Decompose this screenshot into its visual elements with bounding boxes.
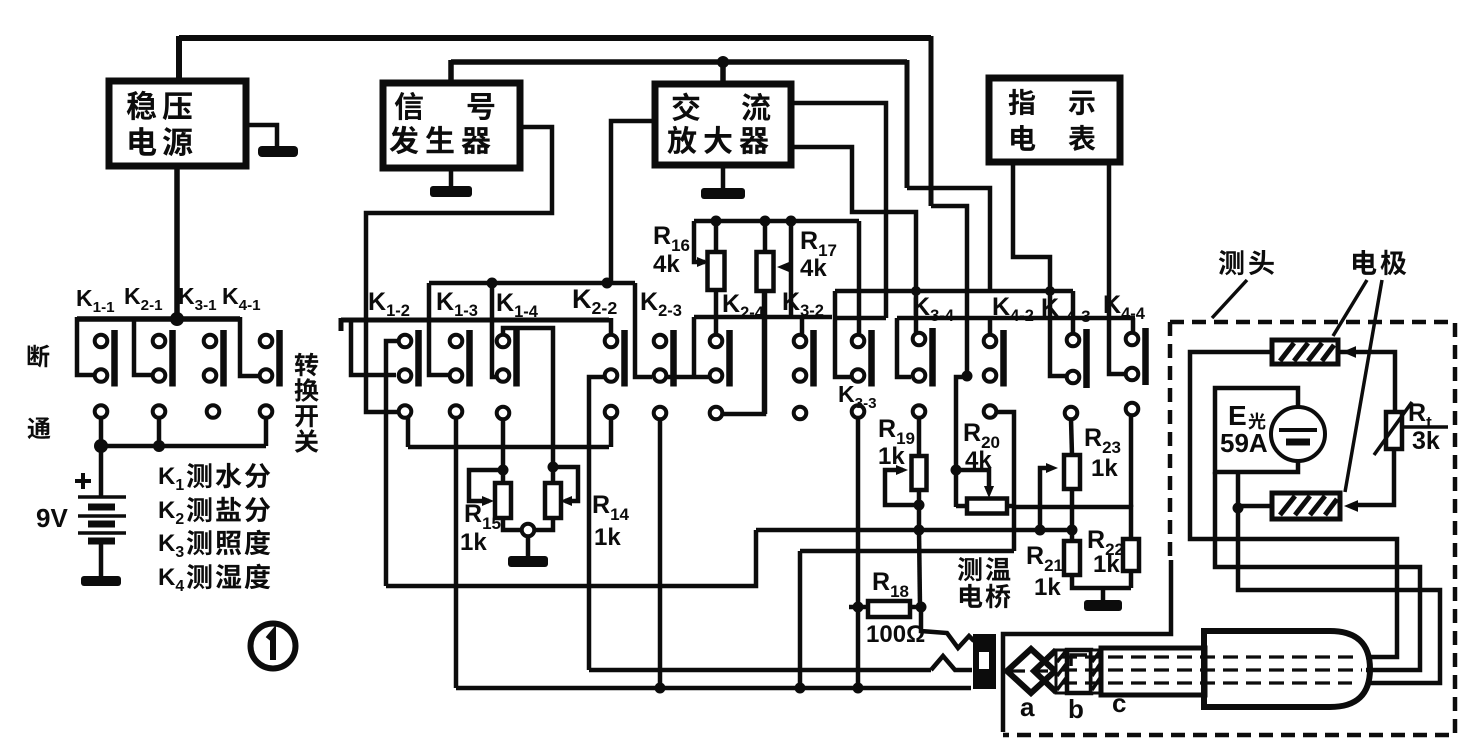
wire K4-1 pole stem bbox=[264, 418, 269, 446]
resistor R22 1k bbox=[1123, 539, 1139, 571]
plug insulator band 1 bbox=[1056, 650, 1067, 693]
wire K4-4 pole to R22 top bbox=[1129, 415, 1134, 507]
switch K4-1 bbox=[260, 330, 280, 418]
label + battery polarity bbox=[75, 479, 91, 483]
label 转换开关 (selector switch) bbox=[295, 353, 319, 453]
probe dashed enclosure 测头 bbox=[1003, 322, 1455, 735]
node bus2/meter bbox=[1045, 286, 1055, 296]
wire W2 drop to AC amplifier bbox=[720, 62, 726, 86]
svg-text:c: c bbox=[1112, 688, 1126, 718]
switch K1-1 bbox=[95, 330, 115, 418]
node R17 wiper tie bbox=[786, 216, 797, 227]
wire R17 top lead bbox=[763, 221, 768, 252]
arrow R17 wiper bbox=[777, 262, 789, 272]
slash adjustable Rt bbox=[1374, 402, 1412, 455]
node R18 left bbox=[853, 602, 864, 613]
wire bus drop bbox=[692, 317, 697, 377]
node junction W2/amplifier bbox=[717, 56, 729, 68]
wire loop left drop to K1-3 bottom bbox=[429, 283, 449, 375]
switch K1-2 bbox=[399, 330, 419, 418]
wire W2 right drop bbox=[905, 60, 910, 188]
ground below signal generator bbox=[449, 168, 454, 186]
wire bracket to K2-1 bottom bbox=[134, 317, 152, 375]
dashed conductor lines inside probe bbox=[1010, 657, 1362, 683]
node R23 wiper/H1 bbox=[1035, 525, 1046, 536]
node R15/R14 bottom contact bbox=[522, 524, 535, 537]
label 电极 (electrodes) bbox=[1353, 250, 1406, 275]
wire K1-3 pole down to BB2 bbox=[454, 418, 459, 688]
text 表 bbox=[1069, 125, 1096, 151]
wire bracket to K1-2 bottom bbox=[351, 318, 396, 375]
plug barrel bbox=[1101, 648, 1205, 695]
wire R16/R17 top bus bbox=[694, 219, 859, 224]
resistor R20 4k body horizontal bbox=[967, 499, 1007, 514]
wire amplifier out-bottom to K3-4 top contact bbox=[791, 147, 916, 336]
battery 9V bbox=[78, 446, 126, 541]
wire second bus W2 bbox=[451, 59, 907, 65]
wire bus3 to K4-4 top stem bbox=[1131, 318, 1136, 334]
wire R18 left lead bbox=[849, 605, 868, 610]
ground below bridge bbox=[1101, 588, 1106, 600]
switch K2-4 bbox=[710, 330, 730, 419]
wire K3-3 pole down through R18 to BB2 bbox=[856, 418, 861, 688]
resistor R14 1k body bbox=[545, 483, 561, 518]
plug chevron tip bbox=[1007, 649, 1055, 693]
wire pole bus bbox=[100, 444, 266, 449]
wire top bus W1 bbox=[179, 35, 931, 41]
wire R18 to jack tip with squiggle bbox=[921, 607, 974, 648]
wire loop conductor b bbox=[1215, 472, 1420, 670]
switch K3-4 bbox=[913, 328, 933, 418]
switch K1-3 bbox=[450, 330, 470, 418]
text 信 bbox=[395, 92, 423, 120]
wire left bank bus bbox=[77, 316, 240, 322]
node lamp/electrode2 bbox=[1233, 503, 1244, 514]
resistor R19 1k with wiper bbox=[912, 456, 927, 490]
ground below R15/R14 bbox=[526, 536, 531, 556]
wire W2 staircase to bus2 bbox=[907, 188, 990, 291]
wire R17 wiper tie down to bus bbox=[789, 221, 794, 317]
wire bus2 left drop to K3-3 bottom bbox=[835, 291, 851, 377]
wire W1 drop to power supply box bbox=[176, 36, 182, 81]
wire K2-3/K2-4 bottom tie bbox=[660, 375, 710, 380]
wire amplifier out-top to K3-3 bus bbox=[791, 103, 886, 318]
wire K2-1 pole stem bbox=[157, 418, 162, 446]
svg-text:1k: 1k bbox=[1093, 551, 1120, 578]
wire H2 bridge bus bbox=[800, 549, 1014, 554]
svg-text:1k: 1k bbox=[1091, 455, 1118, 482]
resistor Rt 3k body bbox=[1386, 412, 1402, 449]
wire R16 top lead bbox=[714, 221, 719, 252]
wire K3-2 top stem bbox=[800, 317, 805, 336]
wire R17 wiper stub bbox=[786, 265, 791, 270]
wire K1-4 top contact to R14 top bbox=[503, 328, 553, 467]
wire K1-1 pole stem bbox=[99, 418, 104, 446]
wire R14 wiper loop bbox=[553, 467, 578, 501]
plug compartment outline bbox=[1003, 560, 1171, 732]
text 号 bbox=[468, 93, 495, 120]
wire loop bus y283 bbox=[429, 281, 635, 286]
svg-text:a: a bbox=[1020, 692, 1035, 722]
wire bracket to K1-1 bottom bbox=[77, 317, 94, 375]
wire H1 bridge bus bbox=[756, 528, 1072, 533]
wire W1 staircase to K4-2 bottom bbox=[931, 206, 967, 376]
resistor R23 1k with wiper bbox=[1071, 419, 1072, 455]
switch K4-2 bbox=[984, 330, 1004, 418]
wire BB2 lowest bus to jack bbox=[456, 686, 971, 691]
plug insulator band 2 bbox=[1091, 650, 1101, 693]
svg-text:1k: 1k bbox=[460, 529, 487, 556]
wire R16R17 bus down to K3-3 top contact bbox=[857, 221, 862, 334]
node R18 right bbox=[916, 602, 927, 613]
wire K4-2 pole to R20 right/H2 bbox=[996, 412, 1014, 551]
node on bus2 bbox=[911, 286, 921, 296]
label 断 (off) bbox=[28, 345, 50, 368]
svg-text:3k: 3k bbox=[1412, 427, 1440, 455]
label 测头 (probe) bbox=[1219, 250, 1274, 275]
ground below AC amplifier bbox=[721, 165, 726, 188]
wire R18 right lead bbox=[910, 605, 921, 610]
wire R17 bottom to K2-4 pole bbox=[763, 291, 768, 414]
node K4-2 bottom junction bbox=[962, 371, 973, 382]
node loop/amplifier input bbox=[602, 278, 613, 289]
text 指 bbox=[1009, 89, 1036, 115]
node R16 top bbox=[711, 216, 722, 227]
node pole bus junction bbox=[153, 440, 165, 452]
resistor R15 1k body bbox=[495, 483, 511, 518]
svg-text:1k: 1k bbox=[878, 443, 905, 470]
wire R16 wiper loop bbox=[694, 221, 705, 262]
text 发生器 bbox=[390, 126, 491, 154]
wire loop to K1-4 bottom bbox=[492, 283, 497, 377]
resistor R21 1k bbox=[1064, 541, 1080, 575]
arrow into electrode 1 bbox=[1342, 346, 1356, 358]
switch K3-3 bbox=[852, 330, 872, 418]
wire R20 wiper feed bbox=[956, 470, 989, 492]
wire K3-4 pole to R19 bbox=[917, 418, 922, 456]
wire squiggle to jack middle contact bbox=[931, 656, 972, 670]
electrode 2 (bottom) hatched bbox=[1272, 493, 1340, 519]
svg-text:59A: 59A bbox=[1220, 428, 1268, 458]
node battery junction bbox=[94, 439, 108, 453]
wire K2-2 bottom line to jack bbox=[589, 668, 931, 673]
wire K2-2 bottom down to plug bbox=[589, 377, 604, 670]
switch K3-1 bbox=[204, 330, 224, 418]
svg-text:E: E bbox=[1228, 400, 1247, 431]
wire bus left hook bbox=[339, 318, 344, 331]
text 示 bbox=[1069, 91, 1095, 116]
wire AC amplifier input from loop node bbox=[611, 121, 655, 281]
svg-text:4k: 4k bbox=[800, 255, 827, 282]
wire meter right lead to K4-4 bottom bbox=[1109, 165, 1125, 374]
resistor R17 4k body bbox=[757, 252, 774, 291]
svg-text:4k: 4k bbox=[965, 447, 992, 474]
wire K2-2 pole stem bbox=[609, 418, 614, 447]
arrow R14 wiper bbox=[560, 496, 572, 506]
switch K2-1 bbox=[153, 330, 173, 418]
resistor R16 4k body bbox=[708, 252, 725, 290]
electrode 1 (top) hatched bbox=[1272, 340, 1338, 364]
switch K3-2 bbox=[794, 330, 814, 419]
node BB2/K3-2 bbox=[795, 683, 806, 694]
arrow into electrode 2 bbox=[1344, 500, 1358, 512]
wire K2-3 pole down to BB2 bbox=[658, 419, 663, 688]
wire electrode1 conductor a bbox=[1190, 352, 1397, 657]
node loop/K1-4 bbox=[487, 278, 498, 289]
arrow R15 wiper bbox=[482, 496, 494, 506]
pointer line 电极 lower bbox=[1345, 280, 1382, 492]
wire power supply to left bank bus bbox=[174, 166, 180, 319]
arrow R16 wiper bbox=[697, 257, 709, 267]
node R14 top bbox=[548, 462, 559, 473]
node R17 top bbox=[760, 216, 771, 227]
text 电 bbox=[1011, 125, 1035, 151]
svg-text:1k: 1k bbox=[1034, 574, 1061, 601]
switch K4-4 bbox=[1126, 328, 1146, 415]
probe handle body bbox=[1204, 631, 1370, 707]
wire bus K2-4/K3-2 bbox=[694, 315, 832, 320]
switch K4-3 bbox=[1065, 329, 1087, 419]
wire R19 node down to R18 right bbox=[919, 530, 920, 607]
wire bus3 to K4-2 top stem bbox=[988, 318, 993, 336]
photocell E光 59A loop bbox=[1215, 388, 1298, 472]
svg-text:100Ω: 100Ω bbox=[866, 621, 925, 648]
svg-text:4k: 4k bbox=[653, 251, 680, 278]
node R19/H1 bbox=[914, 525, 925, 536]
wire bus3 left drop to K3-4 bottom bbox=[897, 318, 911, 377]
wire bus2 bbox=[835, 289, 1073, 294]
wire R15/R14 bottom tie bbox=[503, 518, 553, 530]
plug sleeve segment bbox=[1067, 650, 1091, 693]
wire H2 corner down to BB2 bbox=[798, 551, 803, 688]
ground below battery bbox=[99, 543, 104, 576]
wire Rt bottom to electrode 2 bbox=[1356, 449, 1394, 505]
switch K1-4 bbox=[497, 330, 517, 419]
wire R16 bottom to K2-4 top contact bbox=[714, 290, 719, 336]
wire K1-2 pole stem bbox=[406, 418, 411, 447]
text 电源 bbox=[129, 127, 192, 156]
wire pole bus y447 bbox=[408, 445, 609, 450]
wire electrode1 to Rt top bbox=[1338, 352, 1395, 412]
wire R20 right lead bbox=[1007, 504, 1014, 509]
ground at power supply output bbox=[246, 125, 277, 148]
wire lamp bottom tap bbox=[1236, 472, 1241, 508]
wire K2-2 top stem bbox=[609, 318, 614, 336]
switch K2-2 bbox=[605, 330, 625, 418]
block 稳压电源 (regulated power supply) bbox=[109, 81, 246, 166]
label 通 (on) bbox=[28, 417, 51, 439]
wire loop right drop to K2-3 bottom bbox=[635, 283, 652, 377]
svg-text:b: b bbox=[1068, 694, 1084, 724]
wire bracket to K4-1 bottom bbox=[240, 317, 259, 376]
wire K2-4 pole to R17 bottom bbox=[723, 293, 764, 414]
label 测温 bbox=[958, 557, 1011, 581]
wire R15 wiper loop bbox=[469, 470, 503, 501]
svg-text:9V: 9V bbox=[36, 503, 68, 533]
node BB2/R18 bbox=[853, 683, 864, 694]
text 稳压 bbox=[127, 91, 192, 120]
wire BB1 bottom bus bbox=[386, 530, 756, 586]
pointer line 测头 bbox=[1212, 280, 1247, 318]
wire middle bank bus bbox=[341, 318, 609, 323]
block 信号发生器 (signal generator) bbox=[383, 83, 520, 168]
block 交流放大器 (AC amplifier) bbox=[655, 84, 791, 165]
wire signal generator output to K1-2 pole bbox=[366, 127, 552, 412]
text 交 bbox=[672, 93, 699, 122]
node bank1 feed junction bbox=[170, 312, 184, 326]
wire W1 right drop bbox=[929, 36, 934, 206]
wire short bus at K3-3 bbox=[835, 316, 886, 321]
text 放大器 bbox=[667, 126, 768, 154]
svg-text:1k: 1k bbox=[594, 524, 621, 551]
text 流 bbox=[742, 93, 770, 121]
node R20 wiper tie bbox=[951, 465, 962, 476]
wire R20 left lead bbox=[956, 504, 967, 509]
pointer line 电极 upper bbox=[1333, 280, 1367, 336]
plug tip black jack bbox=[973, 634, 996, 689]
resistor R18 100 ohm body bbox=[868, 601, 910, 617]
arrow R20 wiper bbox=[984, 486, 994, 498]
wire K1-2 top contact to BB1 bbox=[386, 341, 398, 586]
node R15 top bbox=[498, 465, 509, 476]
wire meter left lead to K4-3 bottom bbox=[1013, 165, 1066, 376]
wire electrode2 left lead bbox=[1238, 504, 1272, 509]
wire branch down to R20 left bbox=[956, 377, 967, 507]
wire bus3 bbox=[897, 316, 1135, 321]
wire R20 node to R22 top bbox=[1014, 507, 1131, 539]
photocell circle bbox=[1271, 407, 1325, 461]
label 电桥 bbox=[960, 584, 1011, 609]
wire electrode2 conductor c bbox=[1238, 508, 1440, 683]
node BB2/K2-3 bbox=[655, 683, 666, 694]
wire bus2 to K4-3 top contact bbox=[1071, 291, 1076, 334]
figure number circled 1 bbox=[251, 624, 296, 669]
wire W2 drop to signal generator bbox=[448, 60, 454, 84]
wire K1-4 pole to R15 bbox=[501, 419, 506, 470]
switch K2-3 bbox=[654, 330, 674, 419]
block 指示电表 (indicating meter) bbox=[989, 78, 1120, 162]
